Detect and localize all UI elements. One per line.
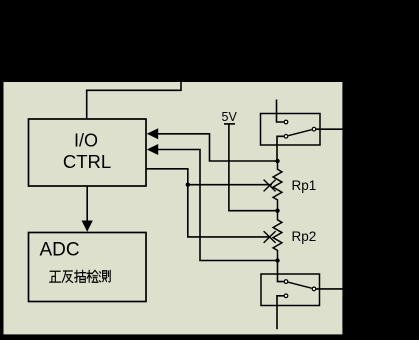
junction dot wiper bus — [186, 183, 190, 187]
wire S2 output to panel edge — [316, 288, 342, 290]
S2 lever — [288, 282, 311, 288]
label 正反插检测 (drawn as vector strokes) — [50, 270, 111, 282]
wire to Rp2 wiper — [188, 185, 270, 237]
svg-text:5V: 5V — [222, 110, 238, 124]
wire to Rp1 wiper — [188, 184, 272, 186]
arrow from I/O CTRL down to ADC — [86, 186, 88, 222]
glyph 插 — [75, 270, 86, 282]
svg-text:Rp1: Rp1 — [292, 178, 317, 193]
S1 contact circle right — [312, 127, 316, 131]
S2 bottom stub pin — [277, 296, 284, 330]
op-amp block I/O CTRL box U1 — [29, 119, 147, 186]
svg-text:I/O: I/O — [74, 131, 98, 151]
S1 common pin to Rp1 top node — [277, 136, 284, 161]
arrow 1 into I/O CTRL (from Rp1 top node) — [147, 128, 158, 139]
S2 contact circle lower — [284, 294, 288, 298]
wire from I/O CTRL top to off-panel (top edge) — [87, 82, 181, 120]
wire S1 output to panel edge — [316, 128, 342, 130]
S1 contact circle upper — [284, 120, 288, 124]
wire arrow1 to Rp1 top junction — [158, 134, 278, 161]
glyph 测 — [99, 270, 110, 281]
S2 common pin from Rp2 bottom node — [278, 261, 284, 282]
S1 lever — [288, 130, 311, 136]
svg-text:CTRL: CTRL — [63, 151, 111, 172]
panel background — [4, 82, 343, 334]
wire I/O CTRL to wiper bus — [146, 169, 188, 185]
node: Rp1/Rp2 midpoint junction — [275, 209, 279, 213]
switch S2 box (bottom) — [261, 274, 320, 306]
Rp2 wiper arrow cross — [264, 231, 276, 243]
S2 contact circle right — [312, 287, 316, 291]
resistor Rp1 (potentiometer) — [273, 161, 282, 211]
node: Rp1 top junction — [275, 159, 279, 163]
S2 contact circle upper — [284, 280, 288, 284]
switch S1 box (top) — [261, 114, 321, 146]
wire 5V to Rp1/Rp2 midpoint — [229, 124, 278, 211]
glyph 检 — [87, 270, 98, 282]
Rp1 wiper arrow cross — [264, 180, 276, 192]
svg-text:ADC: ADC — [40, 240, 80, 261]
wire arrow2 to Rp2 bottom junction — [158, 150, 278, 261]
S1 contact circle lower — [284, 135, 288, 139]
svg-text:Rp2: Rp2 — [292, 229, 317, 244]
ADC block box — [29, 233, 147, 302]
resistor Rp2 (potentiometer) — [273, 211, 282, 261]
arrow 2 into I/O CTRL (from Rp2 bottom node) — [147, 144, 158, 155]
5V rail bar — [224, 123, 235, 125]
node: Rp2 bottom junction — [275, 258, 279, 262]
S1 top stub pin — [277, 100, 284, 123]
glyph 正 — [50, 271, 61, 282]
glyph 反 — [62, 271, 73, 282]
